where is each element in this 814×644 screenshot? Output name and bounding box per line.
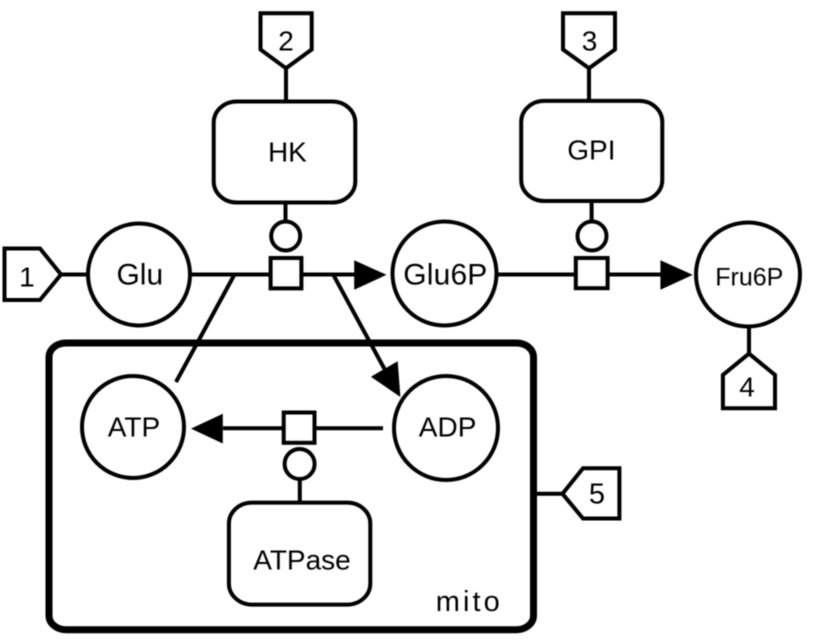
svg-text:4: 4 — [739, 372, 755, 403]
wire compartment to tag5 — [537, 492, 563, 496]
wire tag2 to HK — [284, 68, 288, 101]
wire Fru6P to tag4 — [747, 326, 751, 353]
wire production ADP diagonal — [333, 275, 384, 369]
wire tag1 to Glu — [61, 273, 90, 277]
svg-text:Glu6P: Glu6P — [403, 258, 487, 291]
wire P1 to Glu6P arrowhead — [301, 273, 356, 277]
enzyme GPI — [521, 101, 662, 201]
tag 3 — [563, 13, 615, 68]
species Glu — [88, 224, 190, 326]
catalysis circle C3 — [285, 449, 315, 479]
wire P3 to ATP arrowhead — [223, 426, 284, 430]
tag 5 — [563, 468, 620, 518]
enzyme HK — [214, 102, 356, 203]
arrowhead into Fru6P — [660, 260, 692, 290]
wire tag3 to GPI — [587, 68, 591, 101]
svg-text:2: 2 — [278, 26, 294, 57]
tag 1 — [5, 249, 62, 301]
arrowhead into ATP — [191, 414, 223, 444]
wire GPI to catalysis circle C2 — [590, 201, 594, 222]
compartment mito — [49, 343, 534, 630]
svg-text:3: 3 — [582, 26, 598, 57]
enzyme ATPase — [229, 503, 370, 605]
svg-text:Fru6P: Fru6P — [715, 264, 783, 292]
tag 4 — [723, 354, 775, 409]
catalysis circle C2 — [578, 222, 607, 251]
wire HK to catalysis circle C1 — [284, 203, 288, 222]
process square P1 — [271, 258, 302, 288]
process square P2 — [576, 258, 608, 288]
tag 2 — [261, 13, 312, 68]
svg-text:Glu: Glu — [116, 259, 163, 292]
svg-text:mito: mito — [436, 586, 500, 618]
species Fru6P — [696, 223, 800, 327]
arrowhead into Glu6P — [354, 260, 386, 290]
wire Glu to process P1 — [190, 273, 271, 277]
svg-text:HK: HK — [268, 136, 307, 167]
svg-text:5: 5 — [589, 479, 605, 511]
svg-text:ATPase: ATPase — [253, 544, 351, 575]
species ADP — [394, 376, 498, 480]
svg-text:ADP: ADP — [419, 412, 477, 443]
wire P2 to Fru6P arrowhead — [608, 273, 662, 277]
wire Glu6P to process P2 — [497, 273, 576, 277]
species ATP — [82, 376, 184, 478]
svg-text:GPI: GPI — [567, 135, 615, 166]
wire catalysis circle C3 to ATPase — [298, 479, 302, 503]
process square P3 — [284, 413, 315, 443]
wire ADP to process P3 — [315, 426, 384, 430]
svg-text:ATP: ATP — [108, 411, 160, 442]
catalysis circle C1 — [271, 222, 300, 251]
wire consumption ATP diagonal — [176, 275, 235, 383]
svg-text:1: 1 — [19, 261, 35, 292]
species Glu6P — [393, 222, 497, 326]
arrowhead into ADP — [371, 361, 401, 397]
